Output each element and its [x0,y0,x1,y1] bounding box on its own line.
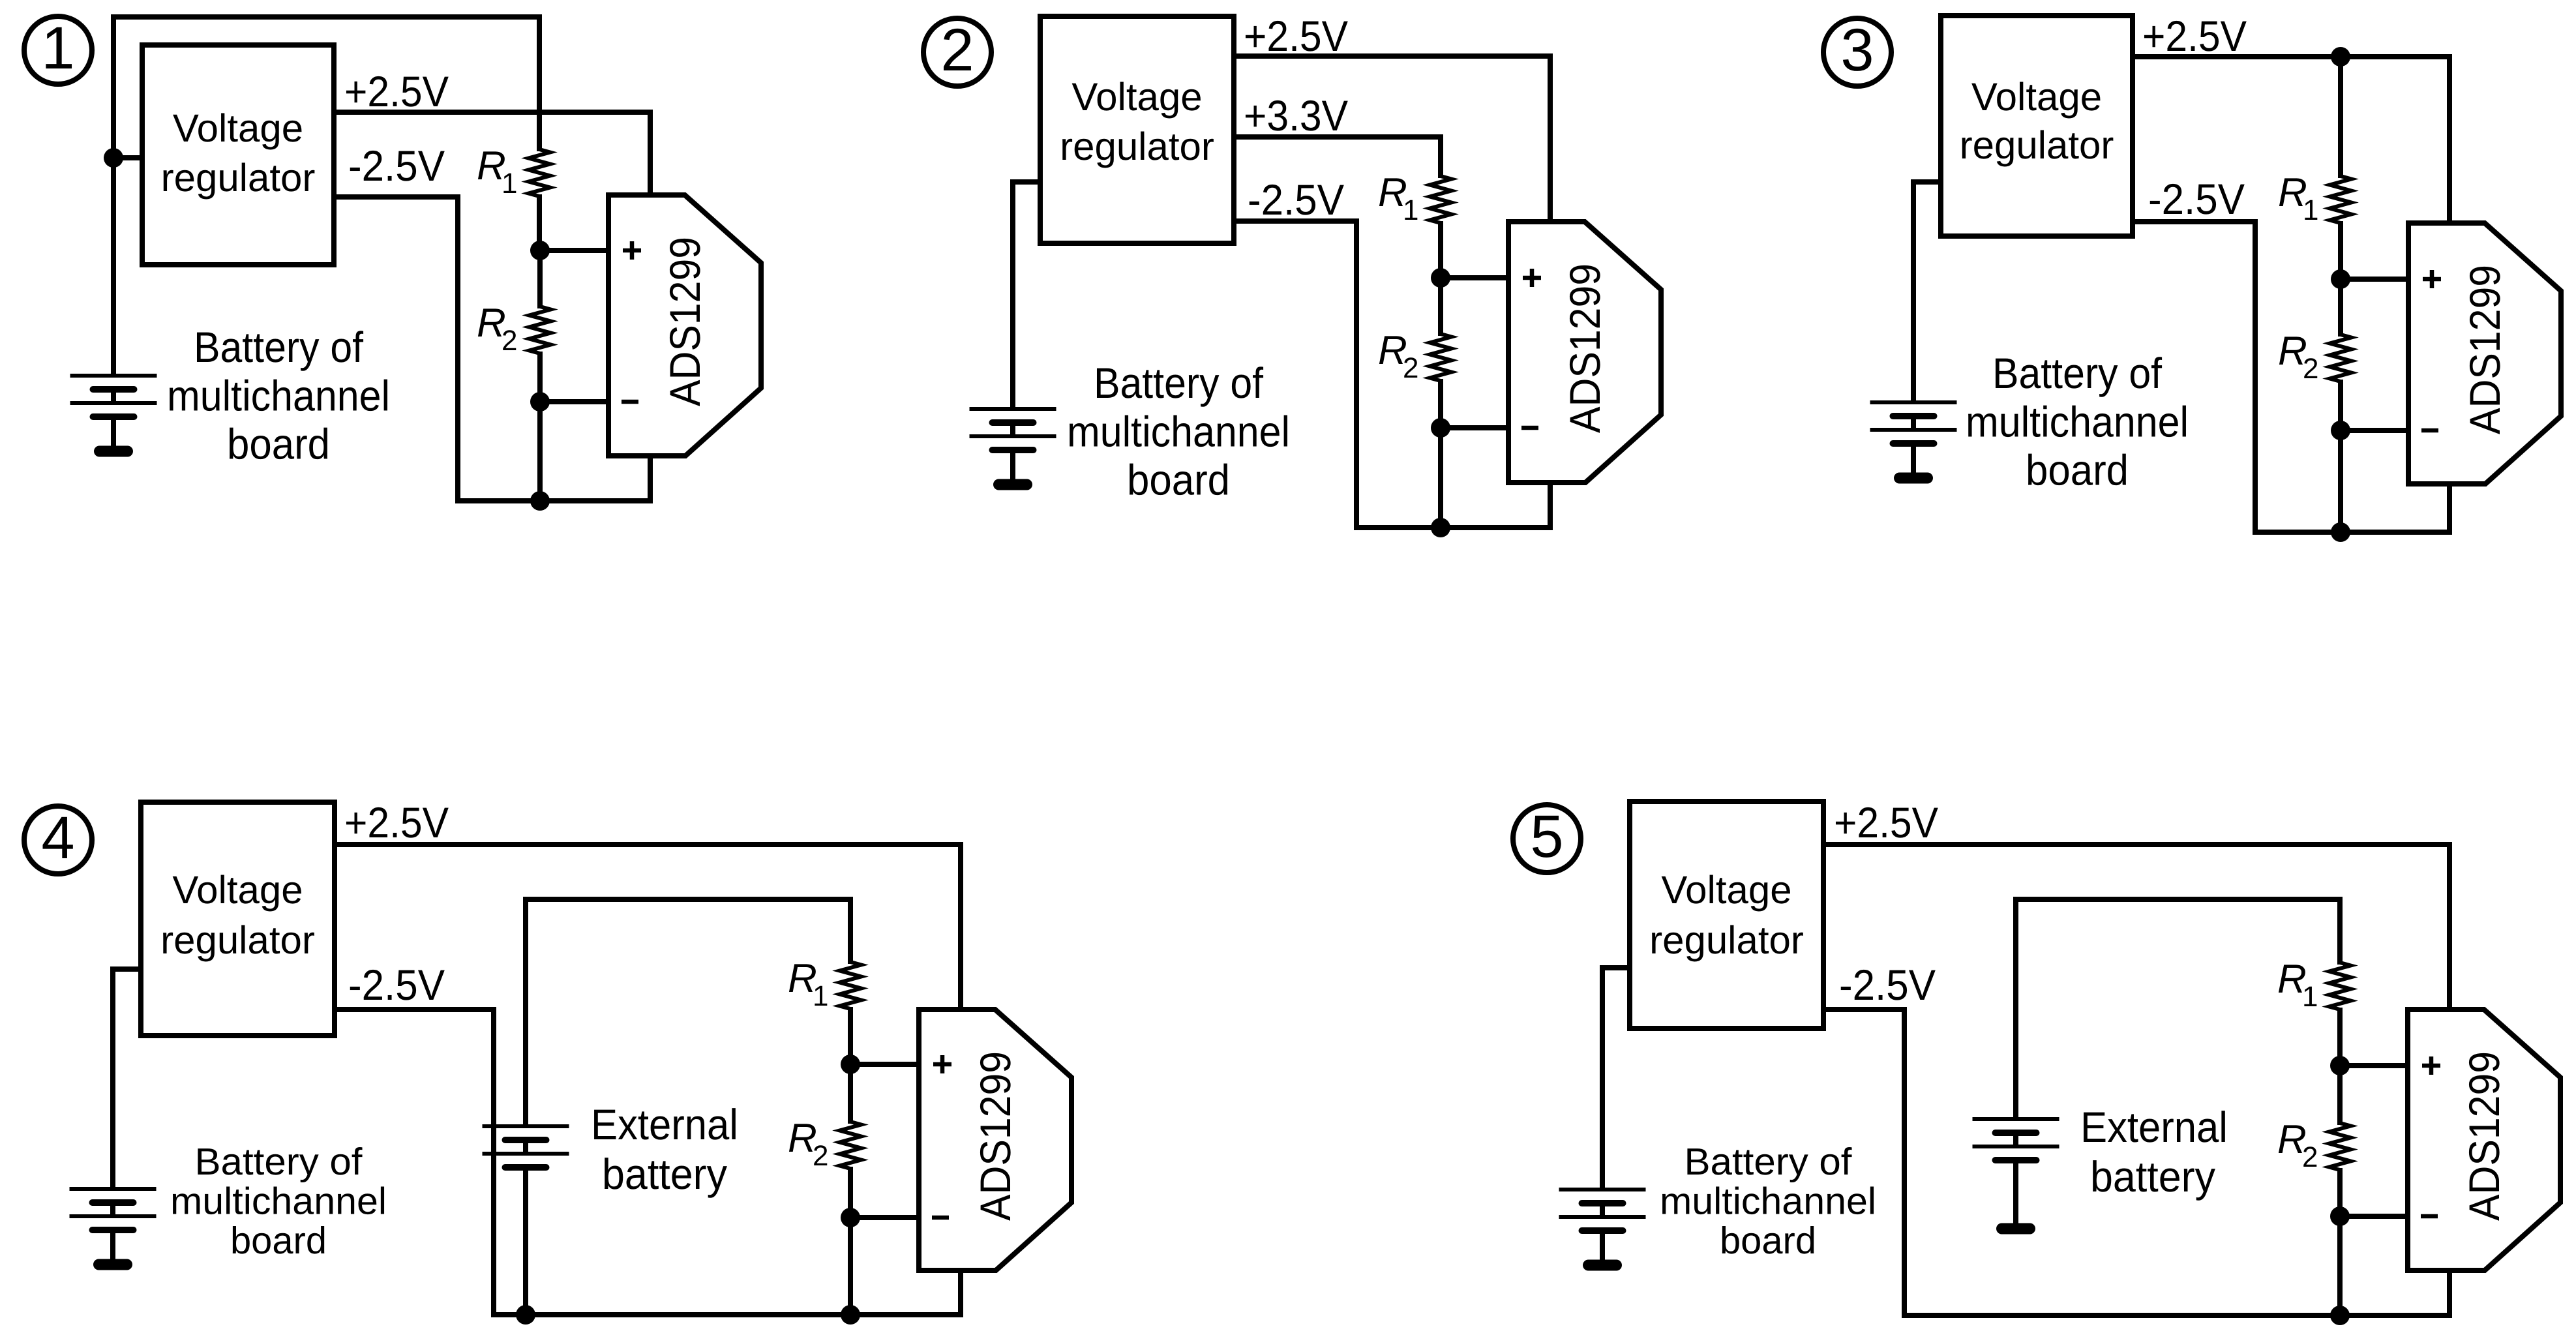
svg-text:ADS1299: ADS1299 [971,1051,1019,1221]
svg-text:External: External [591,1100,738,1148]
svg-text:Voltage: Voltage [1971,75,2102,119]
resistor R2 [848,1064,853,1124]
svg-text:2: 2 [2302,1141,2318,1173]
wire to - input [1441,425,1508,430]
external battery: battery short plate [505,1137,547,1143]
wire regulator input [110,966,141,972]
svg-text:+2.5V: +2.5V [2142,12,2247,60]
battery of multichannel board: wire [110,1230,115,1265]
svg-text:regulator: regulator [161,156,316,200]
wire to - input [850,1215,919,1220]
battery of multichannel board: ground bar [100,446,128,457]
svg-text:2: 2 [502,325,517,357]
battery of multichannel board: battery long plate [970,407,1056,411]
battery of multichannel board: battery long plate [1870,400,1957,404]
wire external battery to bottom rail [523,1167,528,1315]
svg-text:board: board [230,1220,327,1262]
svg-text:Battery of: Battery of [1685,1141,1853,1183]
node R1-R2 junction [2331,269,2350,289]
svg-text:board: board [1720,1220,1816,1262]
svg-text:ADS1299: ADS1299 [2461,265,2509,434]
battery of multichannel board: battery long plate [70,1187,157,1191]
wire -2.5V rail [1823,1007,1907,1012]
node R2 bottom junction [2330,1206,2350,1226]
wire bottom rail [2253,530,2452,535]
wire external battery top rail [526,897,853,902]
battery of multichannel board: battery long plate [70,401,157,405]
pin - label [2421,428,2438,433]
svg-text:battery: battery [2090,1152,2215,1201]
wire battery+ vertical [1600,965,1605,1190]
battery of multichannel board: wire [111,417,116,451]
op-amp/IC ADS1299 body [1508,222,1661,483]
node R2 bottom junction [530,392,550,412]
svg-text:board: board [2026,446,2129,494]
battery of multichannel board: ground bar [99,1259,127,1270]
svg-text:Battery of: Battery of [1992,349,2163,397]
svg-text:multichannel: multichannel [167,371,390,419]
svg-text:Voltage: Voltage [173,106,303,150]
external battery: wire [523,1140,528,1154]
wire to + input [540,248,608,253]
wire -2.5V down [2253,219,2258,535]
external battery: battery long plate [483,1124,569,1128]
node R1-R2 junction [530,241,550,260]
wire -2.5V rail [335,1007,496,1012]
svg-text:2: 2 [1403,352,1418,384]
wire battery+ vertical [111,14,116,376]
resistor R2 [1438,278,1443,336]
wire battery+ vertical [1911,179,1916,402]
battery of multichannel board: battery short plate [993,447,1034,453]
resistor R1 [2338,57,2343,178]
svg-text:1: 1 [1403,194,1418,226]
battery of multichannel board: battery long plate [1870,428,1957,432]
wire +2.5V rail [1234,53,1553,59]
svg-text:-2.5V: -2.5V [1839,961,1936,1009]
svg-text:External: External [2080,1103,2228,1151]
wire R2 to bottom rail [848,1218,853,1315]
svg-text:Battery of: Battery of [194,323,364,371]
svg-text:1: 1 [2303,194,2318,226]
voltage regulator box [1040,16,1234,243]
wire R2 to bottom rail [2338,430,2343,532]
svg-text:-2.5V: -2.5V [2148,175,2245,223]
battery of multichannel board: wire [1010,450,1015,485]
node R2 bottom junction [1431,418,1450,438]
voltage regulator box [1941,16,2133,236]
wire bottom rail [491,1312,963,1317]
wire +2.5V down to ADS AVDD [648,110,653,195]
svg-text:board: board [227,420,330,468]
pin - label [2421,1214,2438,1219]
node R2 bottom junction [2331,421,2350,440]
svg-text:multichannel: multichannel [170,1180,387,1222]
wire ADS AVSS pin [1548,483,1553,530]
pin - label [622,400,638,404]
svg-text:2: 2 [813,1140,828,1172]
pin - label [932,1216,949,1220]
battery of multichannel board: ground bar [1589,1260,1617,1271]
resistor R1 [1438,134,1443,178]
svg-text:1: 1 [2302,981,2318,1013]
wire top rail from battery+ to R1 [111,14,542,20]
pin + label [2422,1056,2440,1075]
svg-text:regulator: regulator [1060,125,1214,168]
battery of multichannel board: wire [1600,1203,1605,1217]
battery of multichannel board: battery long plate [1559,1215,1646,1219]
wire battery+ vertical [1010,179,1015,409]
svg-text:+2.5V: +2.5V [1244,12,1348,60]
svg-text:2: 2 [940,17,974,83]
wire -2.5V down [1902,1007,1907,1318]
svg-text:+2.5V: +2.5V [344,798,449,846]
circuit 2 number circle [923,18,991,86]
wire -2.5V rail [1234,218,1359,224]
node R1-R2 junction [2330,1056,2350,1075]
external battery: wire [2013,1133,2018,1146]
svg-text:-2.5V: -2.5V [348,142,445,190]
svg-text:+2.5V: +2.5V [1834,798,1938,846]
wire +2.5V down to ADS AVDD [958,842,963,1010]
battery of multichannel board: battery long plate [70,1214,157,1218]
wire -2.5V rail [2133,219,2258,224]
svg-text:Battery of: Battery of [1094,359,1264,407]
voltage regulator box [141,802,335,1036]
svg-text:1: 1 [502,168,517,200]
battery of multichannel board: wire [1911,416,1916,430]
battery of multichannel board: wire [1600,1231,1605,1265]
wire ADS AVSS pin [2447,484,2452,535]
wire to + input [2340,1063,2408,1068]
svg-text:board: board [1127,456,1230,504]
battery of multichannel board: battery short plate [93,413,134,420]
resistor R2 [537,250,543,308]
wire +2.5V down to ADS AVDD [2447,842,2452,1010]
wire regulator input [1600,965,1630,970]
battery of multichannel board: battery short plate [93,1199,134,1206]
svg-text:1: 1 [813,980,828,1012]
voltage regulator box [1630,801,1823,1028]
battery of multichannel board: ground bar [1900,473,1928,484]
node R1-R2 junction [841,1055,860,1074]
svg-text:regulator: regulator [1960,123,2114,167]
node +2.5V / R1 junction [2331,47,2350,67]
svg-text:multichannel: multichannel [1966,397,2189,445]
battery of multichannel board: wire [110,1203,115,1216]
wire to - input [540,399,608,404]
battery of multichannel board: battery short plate [1582,1200,1623,1206]
svg-text:regulator: regulator [160,918,315,962]
wire ADS AVSS pin [648,456,653,503]
svg-text:+2.5V: +2.5V [344,67,449,115]
wire +3.3V rail [1234,134,1443,140]
resistor R1 [2337,899,2343,965]
wire R2 to bottom rail [1438,428,1443,528]
wire to + input [2341,277,2408,282]
external battery: ground bar [2002,1223,2030,1235]
resistor R2 [2338,279,2343,337]
wire +2.5V rail [334,110,653,115]
svg-text:multichannel: multichannel [1660,1180,1876,1222]
wire to - input [2341,428,2408,433]
battery of multichannel board: battery short plate [1893,440,1934,447]
svg-text:4: 4 [41,805,74,871]
external battery: battery short plate [505,1164,547,1171]
svg-text:ADS1299: ADS1299 [1561,263,1609,433]
circuit 3 number circle [1823,18,1891,86]
node bottom rail junction [841,1305,860,1325]
battery of multichannel board: battery long plate [1559,1188,1646,1191]
node R1-R2 junction [1431,268,1450,288]
battery of multichannel board: wire [111,389,116,403]
op-amp/IC ADS1299 body [2408,223,2561,484]
wire R2 to bottom rail [537,402,543,501]
svg-text:battery: battery [602,1150,727,1198]
external battery: battery short plate [1996,1157,2037,1163]
external battery: battery long plate [1973,1117,2059,1121]
wire to + input [1441,275,1508,280]
resistor R2 [2337,1066,2343,1125]
wire -2.5V rail [334,194,460,200]
wire +2.5V down to ADS AVDD [2447,54,2452,223]
resistor R1 [848,899,853,964]
pin + label [1523,269,1541,287]
svg-text:+3.3V: +3.3V [1244,91,1348,140]
svg-text:Voltage: Voltage [172,868,303,912]
wire -2.5V down [1354,218,1359,530]
external battery: wire [2013,1160,2018,1229]
pin + label [933,1055,951,1073]
battery of multichannel board: battery short plate [93,386,134,393]
wire regulator input [1911,179,1941,185]
wire bottom rail [1902,1313,2452,1318]
battery of multichannel board: battery short plate [993,419,1034,426]
svg-text:1: 1 [41,15,74,82]
battery of multichannel board: ground bar [999,479,1027,490]
wire +2.5V rail [2133,54,2452,59]
wire to + input [850,1062,919,1067]
node battery+ junction [104,148,123,168]
wire +2.5V rail [1823,842,2452,847]
svg-text:Battery of: Battery of [195,1141,363,1183]
wire -2.5V down [455,194,460,503]
pin + label [2423,270,2441,288]
wire -2.5V down [491,1007,496,1317]
svg-text:ADS1299: ADS1299 [2460,1051,2508,1221]
svg-text:5: 5 [1530,803,1563,870]
wire ADS AVSS pin [2447,1270,2452,1318]
wire +2.5V down to ADS AVDD [1548,53,1553,222]
svg-text:-2.5V: -2.5V [348,961,445,1009]
wire external battery top rail [2016,897,2343,902]
svg-text:Voltage: Voltage [1071,75,1202,119]
wire regulator input [1010,179,1040,185]
svg-text:multichannel: multichannel [1067,407,1290,455]
wire bottom rail [455,498,653,503]
wire R2 to bottom rail [2337,1216,2343,1315]
battery of multichannel board: wire [1911,443,1916,478]
svg-text:-2.5V: -2.5V [1248,175,1344,224]
pin - label [1521,426,1538,430]
battery of multichannel board: battery short plate [1582,1227,1623,1234]
svg-text:ADS1299: ADS1299 [661,237,709,406]
wire ADS AVSS pin [958,1270,963,1317]
wire +2.5V rail [335,842,963,847]
svg-text:3: 3 [1840,17,1874,83]
op-amp/IC ADS1299 body [919,1010,1071,1270]
pin + label [623,241,641,260]
external battery: battery long plate [483,1152,569,1156]
wire to regulator input [113,155,142,160]
node bottom rail junction [2331,522,2350,542]
battery of multichannel board: battery short plate [93,1227,134,1233]
battery of multichannel board: battery short plate [1893,413,1934,419]
wire external battery vertical [523,897,528,1126]
op-amp/IC ADS1299 body [608,195,761,456]
circuit 1 number circle [24,16,92,84]
wire to - input [2340,1214,2408,1219]
battery of multichannel board: wire [1010,423,1015,436]
battery of multichannel board: battery long plate [70,374,157,378]
voltage regulator box [142,45,334,265]
battery of multichannel board: battery long plate [970,434,1056,438]
node R2 bottom junction [841,1208,860,1227]
external battery: battery long plate [1973,1145,2059,1148]
external battery: battery short plate [1996,1130,2037,1136]
op-amp/IC ADS1299 body [2408,1010,2560,1270]
node bottom rail junction [2330,1306,2350,1325]
wire bottom rail [1354,525,1553,530]
wire external battery vertical [2013,897,2018,1119]
circuit 5 number circle [1513,805,1581,873]
node bottom rail junction [1431,518,1450,537]
svg-text:2: 2 [2303,353,2318,385]
svg-text:regulator: regulator [1649,918,1804,962]
circuit 4 number circle [24,806,92,874]
node external battery bottom junction [516,1305,535,1325]
resistor R1 [537,14,542,151]
node bottom rail junction [530,491,550,511]
wire battery+ vertical [110,966,115,1189]
svg-text:Voltage: Voltage [1661,868,1791,912]
